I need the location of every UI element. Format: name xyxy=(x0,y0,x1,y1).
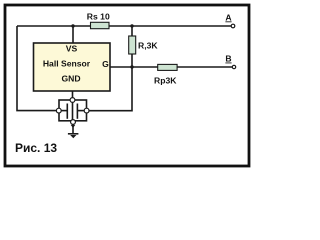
svg-text:R,3K: R,3K xyxy=(138,41,158,51)
svg-text:Hall Sensor: Hall Sensor xyxy=(43,59,91,69)
svg-text:G: G xyxy=(102,59,109,69)
svg-text:Рис. 13: Рис. 13 xyxy=(15,141,57,155)
svg-text:GND: GND xyxy=(61,74,80,84)
svg-text:B: B xyxy=(225,54,231,64)
svg-text:VS: VS xyxy=(66,44,78,54)
svg-text:Rp3K: Rp3K xyxy=(154,76,177,86)
svg-text:Rs 10: Rs 10 xyxy=(87,11,110,21)
svg-text:A: A xyxy=(225,12,231,22)
